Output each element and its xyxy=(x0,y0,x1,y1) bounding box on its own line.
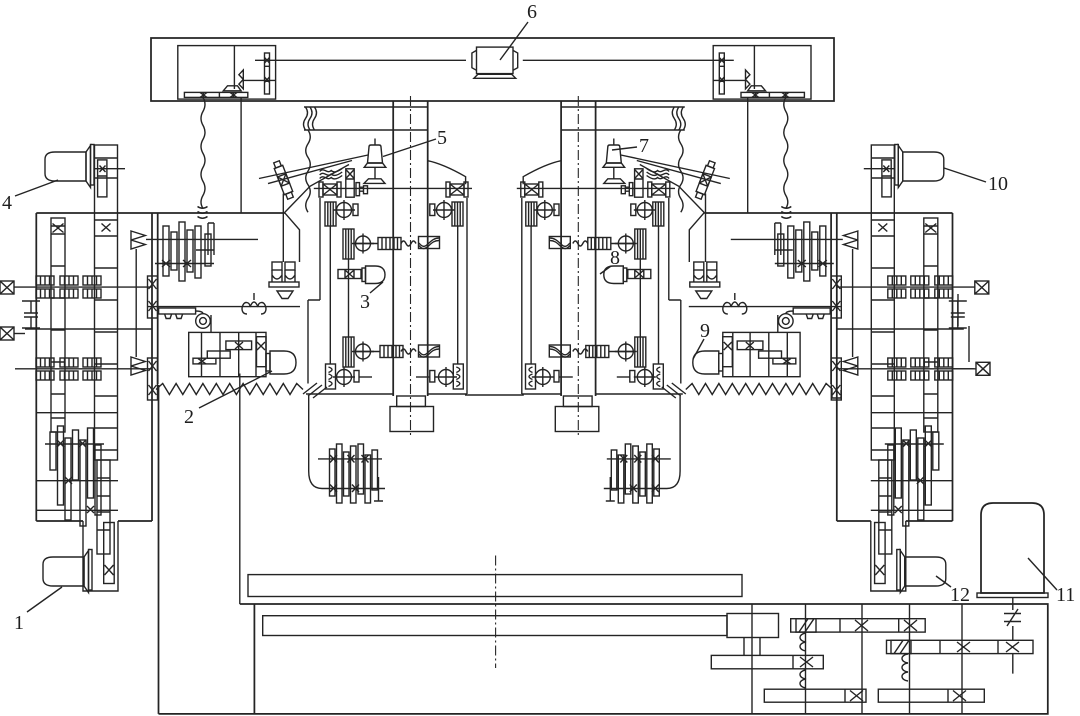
svg-text:5: 5 xyxy=(437,127,447,149)
leader 9 xyxy=(693,339,704,359)
stub shaft xyxy=(14,333,25,335)
leader 1 xyxy=(27,587,62,612)
elastic zigzag base xyxy=(156,384,303,395)
saddle bar xyxy=(263,616,727,636)
ram foot xyxy=(397,396,426,407)
wavy end ticks xyxy=(198,207,208,219)
lower shaft strip xyxy=(97,460,110,554)
bed partitions xyxy=(752,604,962,714)
dome arc xyxy=(428,161,466,185)
gearbox 2 housing xyxy=(189,332,266,376)
leader 11 xyxy=(1028,558,1057,590)
leader 3 xyxy=(370,282,383,293)
row E inner gear set xyxy=(453,364,463,389)
top bell skirt xyxy=(364,163,386,167)
right half (mirrored) xyxy=(517,46,989,593)
row A2 inner gear set xyxy=(452,202,463,226)
tower walls xyxy=(308,198,467,394)
tilted coupling xyxy=(272,160,294,200)
svg-text:11: 11 xyxy=(1056,584,1075,606)
gear pairs row2 xyxy=(36,358,54,380)
carriage shaft strip xyxy=(265,53,270,94)
carriage divider wall xyxy=(233,46,235,89)
beam outer rail xyxy=(151,38,834,101)
motor 11 base xyxy=(977,593,1048,598)
outer gearbox walls xyxy=(36,213,152,521)
tray bracket xyxy=(364,179,385,184)
motor 3 bell xyxy=(362,266,385,284)
motor 4 xyxy=(45,145,94,188)
shaft row 2 xyxy=(15,368,152,370)
flexible wavy drop from carriage xyxy=(201,97,205,208)
coupling X on column strip xyxy=(94,160,125,197)
pennant link line xyxy=(135,249,137,357)
flexible wavy column wall xyxy=(306,130,311,212)
row C clutch xyxy=(338,270,361,279)
right wall stub xyxy=(832,390,841,398)
coupling curls 2 xyxy=(902,654,908,681)
long line shaft to center drive xyxy=(255,59,466,61)
inner gearbox left wall xyxy=(157,213,159,384)
motor 11 body xyxy=(981,503,1044,593)
far right lower coupling X xyxy=(976,362,990,375)
rack bar 4 xyxy=(764,689,866,702)
box top edge xyxy=(36,212,284,214)
svg-text:7: 7 xyxy=(639,135,649,157)
carriage pennant flags xyxy=(239,70,243,89)
leader 12 xyxy=(936,576,951,587)
leader 4 xyxy=(15,180,58,196)
beam left carriage box xyxy=(178,46,276,100)
stub shaft right xyxy=(953,368,976,370)
coupler block xyxy=(727,614,779,638)
leader 7 xyxy=(612,147,637,150)
leader 8 xyxy=(600,266,611,274)
hook lever roller xyxy=(159,308,211,328)
rack 1 end bracket xyxy=(796,619,816,632)
block legs xyxy=(744,638,760,656)
coupling curls 1 xyxy=(800,633,806,651)
end coupling X left xyxy=(0,281,14,294)
gear pairs row1 xyxy=(36,276,54,298)
row D gear train xyxy=(343,337,354,367)
pulley pair xyxy=(356,183,368,196)
band break squiggles xyxy=(304,107,317,130)
idler tees xyxy=(22,301,40,328)
corner strut xyxy=(285,213,300,262)
outer second shaft strip xyxy=(51,218,65,432)
pennants bottom xyxy=(131,357,145,375)
leader 6 xyxy=(500,22,528,60)
left inner pillar xyxy=(239,374,241,605)
straight drop rod from carriage xyxy=(240,97,242,212)
column band xyxy=(304,107,428,130)
extension bearing strip xyxy=(104,523,115,584)
svg-text:3: 3 xyxy=(360,291,370,313)
feed shaft xyxy=(148,306,300,308)
svg-text:10: 10 xyxy=(988,173,1008,195)
pennants top xyxy=(131,231,145,249)
outer lower gear cluster xyxy=(45,426,104,526)
wall bearing strip lower xyxy=(148,358,158,400)
zigzag end ticks xyxy=(303,383,327,398)
svg-text:8: 8 xyxy=(610,247,620,269)
rack bar 3 xyxy=(711,655,823,668)
svg-text:12: 12 xyxy=(950,584,970,606)
rack bar 5 xyxy=(878,689,984,702)
gearbox 2 internals xyxy=(193,337,266,367)
shaft row 1 xyxy=(14,286,152,288)
ram centerline xyxy=(410,96,412,437)
feed gear cluster xyxy=(146,222,258,281)
claw clamp on shaft xyxy=(242,293,266,314)
belt line 1 xyxy=(268,161,352,184)
wall bearing strip upper xyxy=(148,276,158,318)
wedge bracket xyxy=(277,291,293,299)
svg-text:9: 9 xyxy=(700,320,710,342)
carriage mid shaft xyxy=(243,79,276,81)
bell lower stem xyxy=(374,167,376,179)
outer box shelves xyxy=(36,413,118,511)
belt line 2 xyxy=(259,155,368,179)
rack 2 end bracket xyxy=(891,640,911,653)
top bell motor xyxy=(368,145,383,163)
bed outline xyxy=(159,604,1048,714)
row E outer gear set xyxy=(326,364,336,389)
leader 10 xyxy=(944,168,986,182)
drive unit 6 body xyxy=(472,47,518,78)
outer main vertical shaft strip xyxy=(95,145,118,460)
rack bar 1 xyxy=(791,619,926,632)
coupling drop rod xyxy=(282,194,284,263)
top bell motor stem xyxy=(374,139,376,146)
carriage slide wedge xyxy=(223,86,241,91)
corner strut upper xyxy=(285,165,350,213)
spring link xyxy=(1004,598,1021,674)
inner vertical shafts xyxy=(330,226,457,364)
bearing box inner xyxy=(446,182,468,197)
triple wave marks xyxy=(320,169,343,179)
far left lower coupling X xyxy=(0,327,14,340)
hook drop link xyxy=(210,315,212,332)
table centerline xyxy=(495,556,497,669)
lower gear cluster xyxy=(318,444,385,503)
ram column xyxy=(393,101,428,396)
shaft row mid xyxy=(25,328,152,330)
row A shaft xyxy=(314,187,472,189)
bevel bearing strip xyxy=(346,169,354,197)
right link verticals xyxy=(958,294,969,362)
bearing box outer xyxy=(319,182,341,197)
coupling curls 3 xyxy=(800,670,806,688)
cross rail bridge xyxy=(465,394,524,396)
feed motor of box 2 xyxy=(266,351,296,374)
leader 5 xyxy=(383,139,436,157)
lower cluster feed pipe xyxy=(309,396,330,489)
svg-text:1: 1 xyxy=(14,612,24,634)
motor 1 xyxy=(43,550,92,593)
svg-text:6: 6 xyxy=(527,1,537,23)
row B gear train xyxy=(343,229,354,259)
row A2 outer gear set xyxy=(325,202,336,226)
tower bottom xyxy=(306,393,467,395)
omega bearing assembly xyxy=(269,262,299,287)
ram base block xyxy=(390,407,434,432)
rack bar 2 xyxy=(887,640,1034,653)
outer gearbox lower extension xyxy=(83,521,118,591)
left bed pillar xyxy=(158,385,160,714)
work table xyxy=(248,575,742,597)
carriage bottom rack xyxy=(184,92,247,97)
svg-text:2: 2 xyxy=(184,406,194,428)
leader 2 xyxy=(199,371,272,408)
svg-text:4: 4 xyxy=(2,192,12,214)
